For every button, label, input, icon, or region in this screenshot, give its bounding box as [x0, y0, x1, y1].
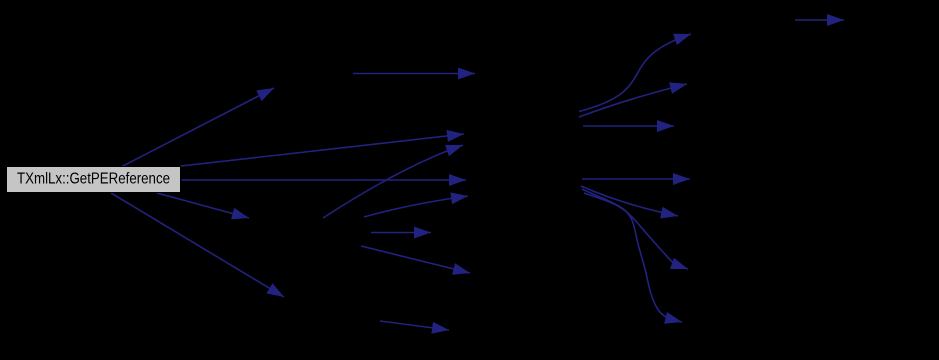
edge node4a->node5a	[795, 19, 844, 21]
edge node3a->node4c	[583, 125, 674, 127]
edge node3b->node4g curve	[584, 193, 682, 322]
edge node3b->node4f curve	[582, 189, 688, 269]
edge node2b->node3c	[371, 232, 431, 234]
edge box->node3a	[181, 134, 464, 166]
edge node3a->node4b	[579, 84, 687, 117]
edge node2b->node3a curve	[323, 145, 463, 218]
edge node2a->node3t	[353, 73, 475, 75]
edge box->node2b	[157, 193, 249, 218]
edge box->node2d	[111, 193, 284, 297]
edge node2d->node3e	[380, 321, 449, 330]
edge node2b->node3d	[361, 246, 470, 273]
edge node3a->node4a curve	[579, 34, 691, 112]
node TXmlLx::GetPEReference	[7, 167, 181, 193]
edge box->node3b	[182, 179, 467, 181]
edge node3b->node4d	[582, 178, 690, 180]
edge node2b->node3b2	[364, 196, 468, 217]
svg-text:TXmlLx::GetPEReference: TXmlLx::GetPEReference	[17, 171, 170, 188]
edge box->node2a	[119, 88, 274, 168]
edge node3b->node4e	[581, 186, 678, 216]
